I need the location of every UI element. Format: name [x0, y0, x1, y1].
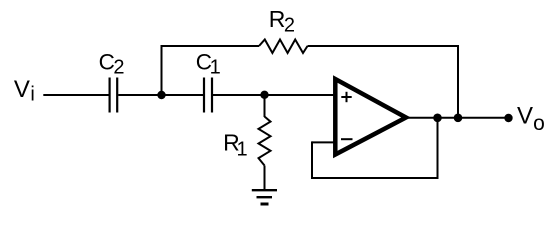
svg-text:V: V — [14, 76, 30, 103]
wire C2 to C1 — [118, 94, 203, 96]
wire inverting input — [312, 141, 335, 143]
op-amp U1 — [335, 79, 406, 155]
node A junction dot — [157, 91, 165, 99]
svg-text:R: R — [269, 6, 286, 32]
wire feedback right vertical — [437, 118, 439, 178]
svg-text:o: o — [533, 112, 545, 135]
node feedback junction dot — [433, 114, 442, 123]
wire R1 to ground — [264, 166, 266, 191]
wire node A up to top branch — [161, 45, 163, 95]
svg-text:i: i — [30, 84, 34, 106]
wire R2 to right corner — [308, 45, 460, 47]
wire right vertical down to output — [457, 45, 459, 118]
capacitor C2 — [110, 78, 118, 113]
wire top branch left to R2 — [161, 45, 260, 47]
svg-text:2: 2 — [284, 15, 295, 37]
svg-text:1: 1 — [210, 57, 221, 79]
wire feedback bottom — [311, 177, 439, 179]
plus input marking — [341, 96, 351, 98]
svg-text:V: V — [517, 103, 533, 130]
output terminal dot — [504, 114, 512, 122]
wire feedback left vertical — [311, 141, 313, 178]
svg-text:1: 1 — [237, 138, 248, 160]
minus input marking — [341, 138, 353, 140]
node R2 junction dot — [454, 114, 463, 123]
resistor R2 — [259, 40, 308, 54]
ground — [252, 190, 277, 204]
node B junction dot — [260, 91, 268, 99]
svg-text:2: 2 — [113, 57, 124, 79]
wire op-amp output — [406, 117, 509, 119]
resistor R1 — [259, 117, 271, 166]
wire C1 to op-amp — [213, 94, 334, 96]
capacitor C1 — [204, 78, 212, 113]
wire input Vi to C2 — [43, 94, 108, 96]
wire node B down to R1 — [264, 95, 266, 117]
